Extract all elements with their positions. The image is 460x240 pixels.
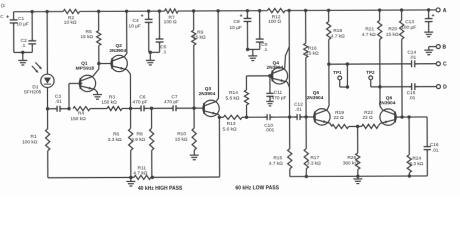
svg-text:R20: R20 [388,26,397,32]
svg-text:C8: C8 [234,19,240,25]
svg-text:(1: (1 [1,3,6,8]
svg-text:2N3904: 2N3904 [379,100,396,106]
svg-text:.01: .01 [55,99,62,105]
svg-text:2N3904: 2N3904 [199,91,216,97]
svg-text:R10: R10 [177,131,186,137]
svg-text:470 pF: 470 pF [164,99,179,105]
svg-text:R13: R13 [227,121,236,127]
svg-text:C: C [443,61,447,67]
svg-text:C1: C1 [18,16,24,22]
svg-text:+: + [432,13,435,19]
svg-text:10 µF: 10 µF [16,21,28,27]
svg-text:.01: .01 [432,148,439,154]
svg-text:.1: .1 [162,49,166,55]
svg-text:C2: C2 [21,38,27,44]
svg-text:.1: .1 [263,47,267,53]
svg-text:150 kΩ: 150 kΩ [101,100,117,106]
svg-text:60 kHz LOW PASS: 60 kHz LOW PASS [235,185,279,191]
svg-text:.01: .01 [409,55,416,61]
svg-text:R18: R18 [333,28,342,34]
svg-text:TP2: TP2 [366,70,375,75]
svg-text:.01: .01 [409,95,416,101]
svg-text:5.6 kΩ: 5.6 kΩ [225,96,239,102]
svg-text:R26: R26 [347,155,356,161]
svg-text:C13: C13 [405,19,414,25]
svg-text:4.7 kΩ: 4.7 kΩ [269,161,283,167]
svg-text:40 kHz HIGH PASS: 40 kHz HIGH PASS [138,186,183,192]
svg-text:R21: R21 [365,27,374,33]
svg-text:Q6: Q6 [386,95,393,101]
svg-text:15 kΩ: 15 kΩ [80,34,93,40]
svg-text:R1: R1 [31,134,37,140]
svg-text:A: A [443,8,447,14]
svg-text:22 Ω: 22 Ω [362,115,373,121]
svg-text:.001: .001 [265,128,275,134]
svg-text:15 kΩ: 15 kΩ [175,137,188,143]
svg-text:15 kΩ: 15 kΩ [306,51,319,57]
svg-text:360 kΩ: 360 kΩ [343,161,359,167]
svg-text:2N3904: 2N3904 [266,65,283,71]
svg-text:150 kΩ: 150 kΩ [70,116,86,122]
svg-text:.01: .01 [295,107,302,113]
svg-text:+: + [240,13,243,19]
svg-text:R6: R6 [113,132,119,138]
svg-text:R15: R15 [273,155,282,161]
svg-text:10 µF: 10 µF [229,25,241,31]
svg-text:D: D [443,84,447,90]
svg-text:2N3904: 2N3904 [307,95,324,101]
svg-text:SFH205: SFH205 [24,89,42,95]
svg-text:470 pF: 470 pF [133,100,148,106]
svg-text:4.7 kΩ: 4.7 kΩ [362,32,376,38]
svg-text:+: + [6,14,9,20]
svg-text:R17: R17 [310,155,319,161]
svg-text:4.7 kΩ: 4.7 kΩ [133,171,147,177]
svg-text:R24: R24 [412,156,421,162]
svg-text:10 µF: 10 µF [128,24,140,30]
svg-text:R8: R8 [137,132,143,138]
svg-text:22 Ω: 22 Ω [333,115,344,121]
svg-text:15 kΩ: 15 kΩ [193,35,206,41]
svg-text:R4: R4 [78,111,84,117]
svg-text:100 Ω: 100 Ω [268,19,281,25]
svg-text:3.3 kΩ: 3.3 kΩ [409,161,423,167]
svg-text:3.3 kΩ: 3.3 kΩ [108,137,122,143]
svg-text:TP1: TP1 [333,70,342,75]
svg-text:2N3904: 2N3904 [109,48,126,54]
svg-text:100 µF: 100 µF [401,25,416,31]
svg-text:C4: C4 [133,18,139,24]
svg-text:3.3 kΩ: 3.3 kΩ [307,161,321,167]
svg-text:3.9 kΩ: 3.9 kΩ [131,137,145,143]
svg-text:C11: C11 [274,90,283,96]
svg-text:B: B [442,44,446,50]
svg-text:R14: R14 [229,90,238,96]
svg-text:.1: .1 [21,43,25,49]
svg-text:100 kΩ: 100 kΩ [22,140,38,146]
svg-text:C16: C16 [430,142,439,148]
svg-text:15 kΩ: 15 kΩ [386,32,399,38]
svg-text:+: + [141,14,144,20]
svg-text:100 Ω: 100 Ω [164,19,177,25]
svg-text:5.6 kΩ: 5.6 kΩ [223,127,237,133]
svg-text:4.7 kΩ: 4.7 kΩ [331,34,345,40]
svg-text:470 pF: 470 pF [272,95,287,101]
svg-text:MPS918: MPS918 [76,66,95,72]
svg-text:10 kΩ: 10 kΩ [64,20,77,26]
